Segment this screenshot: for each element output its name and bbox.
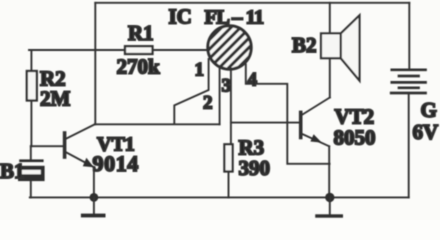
svg-text:390: 390 (239, 156, 271, 180)
wire: VT1 collector rail to pins 1,2 (95, 123, 220, 125)
collector (302, 98, 330, 116)
base wire (31, 145, 63, 147)
speaker B2 (321, 3, 360, 98)
svg-text:B2: B2 (292, 33, 317, 57)
wire: ground rail (30, 196, 409, 198)
transistor VT1 (31, 124, 95, 197)
emitter with arrow (302, 134, 330, 147)
svg-text:2M: 2M (40, 87, 71, 111)
emitter with arrow (66, 152, 94, 167)
transistor VT2 (301, 98, 330, 198)
svg-text:270k: 270k (117, 55, 161, 79)
wire: left vertical from top rail to VT1 collector node (94, 3, 96, 125)
svg-text:1: 1 (195, 60, 205, 81)
svg-text:4: 4 (248, 70, 258, 91)
pin 2 lead (219, 67, 221, 124)
wire: bias rail y=50 from R2 top to IC pin (29, 49, 207, 51)
svg-text:B1: B1 (0, 159, 25, 183)
collector (66, 124, 95, 139)
base bar (299, 112, 303, 137)
resistor R2 (30, 50, 32, 71)
svg-text:R1: R1 (128, 21, 154, 45)
wire: base wire of VT2 from pin3 node (231, 122, 299, 124)
svg-text:6V: 6V (413, 120, 439, 144)
IC U1 hatched disc FL-11 (169, 12, 294, 80)
pin 1 lead (174, 59, 208, 123)
svg-text:G: G (421, 98, 437, 122)
svg-text:8050: 8050 (334, 126, 376, 150)
ground symbol left (93, 197, 95, 213)
wire: top supply rail (95, 2, 409, 4)
junction node at VT2 emitter/ground (325, 193, 334, 202)
microphone B1 (18, 146, 45, 197)
resistor R1 (125, 46, 153, 54)
svg-text:2: 2 (203, 93, 213, 114)
pin 4 lead (246, 65, 330, 164)
resistor R3 (224, 144, 232, 171)
svg-text:9014: 9014 (93, 151, 139, 176)
junction node at VT1 emitter/ground (90, 193, 99, 202)
svg-text:3: 3 (222, 76, 232, 97)
pin 3 lead down to R3 (230, 69, 232, 145)
svg-text:FL–11: FL–11 (205, 7, 264, 29)
svg-text:IC: IC (169, 5, 192, 29)
battery G (391, 3, 425, 198)
ground symbol right (329, 197, 331, 214)
base bar (63, 133, 67, 157)
